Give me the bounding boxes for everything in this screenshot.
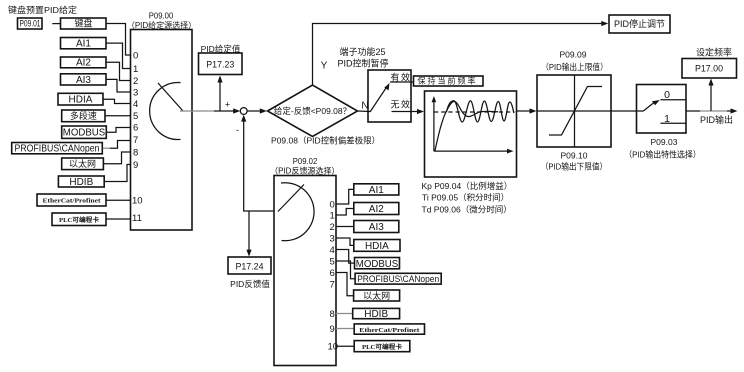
svg-text:P09.09: P09.09 — [560, 50, 587, 60]
input box MODBUS — [62, 126, 107, 138]
input box EtherCat/Profinet — [37, 194, 106, 206]
svg-text:2: 2 — [330, 222, 335, 233]
svg-text:（PID给定源选择）: （PID给定源选择） — [127, 20, 196, 30]
limiter block — [537, 75, 611, 147]
wire AI2 to input 2 — [106, 62, 131, 80]
wire branch down to P17.24 — [248, 211, 250, 253]
svg-text:Ti P09.05（积分时间）: Ti P09.05（积分时间） — [422, 193, 509, 203]
wire PROFIBUS to input 7 — [103, 147, 110, 149]
svg-text:保持当前频率: 保持当前频率 — [418, 76, 478, 86]
wire 有效 contact to 保持当前频率 — [390, 81, 414, 83]
input box AI1 — [61, 38, 107, 49]
svg-text:+: + — [225, 100, 230, 110]
selector U2 P09.02 box — [274, 176, 336, 366]
input box AI2 — [61, 57, 107, 68]
svg-text:3: 3 — [133, 88, 138, 99]
wire diamond to pause switch — [358, 110, 371, 113]
svg-text:PID停止调节: PID停止调节 — [614, 18, 665, 29]
svg-text:HDIB: HDIB — [69, 177, 93, 188]
svg-text:5: 5 — [133, 111, 138, 122]
svg-text:7: 7 — [133, 135, 138, 146]
wire limiter to output selector — [611, 110, 637, 112]
output selector box — [637, 85, 687, 134]
svg-text:PROFIBUS\CANopen: PROFIBUS\CANopen — [15, 143, 100, 154]
feedback box AI3 — [354, 221, 399, 233]
PID regulator block — [425, 91, 517, 177]
PID graph x-axis — [434, 150, 510, 152]
wire branch up to P17.00 — [710, 83, 712, 111]
svg-text:9: 9 — [133, 160, 138, 171]
svg-text:7: 7 — [330, 280, 335, 291]
feedback box AI2 — [354, 203, 399, 215]
parameter box P17.23 — [199, 53, 243, 75]
limiter saturation curve — [549, 87, 602, 136]
feedback wire from selector U2 to summing junction — [244, 119, 274, 212]
pause switch box — [368, 70, 411, 122]
contact line 1 — [661, 122, 687, 124]
svg-text:0: 0 — [133, 51, 138, 62]
wire input 2 to AI3 — [336, 226, 354, 228]
svg-text:键盘: 键盘 — [74, 18, 92, 29]
svg-text:P09.10: P09.10 — [561, 151, 588, 161]
svg-text:1: 1 — [330, 211, 335, 222]
svg-text:多段速: 多段速 — [70, 110, 97, 121]
svg-text:MODBUS: MODBUS — [63, 128, 106, 139]
input box PROFIBUS\CANopen — [12, 143, 103, 154]
svg-text:3: 3 — [330, 234, 335, 245]
svg-text:（PID输出特性选择）: （PID输出特性选择） — [624, 149, 701, 159]
input box HDIB — [58, 176, 104, 187]
svg-text:PID反馈值: PID反馈值 — [230, 279, 270, 289]
limiter vertical axis — [574, 75, 576, 147]
svg-text:P17.00: P17.00 — [695, 64, 723, 75]
svg-text:以太网: 以太网 — [69, 158, 96, 169]
output selector wiper — [637, 103, 654, 111]
svg-text:1: 1 — [133, 64, 138, 75]
svg-text:P09.00: P09.00 — [149, 12, 174, 21]
wire AI3 to input 3 — [106, 79, 131, 92]
wire input 8 to HDIB — [336, 313, 353, 315]
wire junction to diamond — [247, 110, 262, 112]
svg-text:PLC可编程卡: PLC可编程卡 — [59, 216, 99, 224]
svg-text:4: 4 — [133, 99, 138, 110]
svg-text:无效: 无效 — [391, 99, 412, 110]
svg-text:11: 11 — [132, 213, 142, 224]
svg-text:有效: 有效 — [391, 72, 412, 83]
wire HDIA to input 4 — [103, 99, 131, 103]
input box HDIA — [58, 93, 103, 105]
svg-text:端子功能25: 端子功能25 — [339, 46, 385, 57]
wire 无效 contact to PID block — [392, 111, 420, 113]
parameter box P09.01 — [18, 18, 43, 29]
wire 多段速 to input 5 — [105, 115, 131, 117]
wire selector to PID output — [686, 110, 700, 112]
wire PLC to input 11 — [106, 218, 131, 220]
feedback box EtherCat/Profinet — [354, 324, 424, 334]
wire input 1 to AI2 — [336, 209, 354, 216]
svg-text:Td P09.06（微分时间）: Td P09.06（微分时间） — [422, 204, 512, 214]
PID graph setpoint dashed line — [434, 111, 515, 113]
selector U2 switch wiper — [278, 185, 304, 212]
wire MODBUS to input 6 — [106, 128, 130, 133]
svg-text:（PID反馈源选择）: （PID反馈源选择） — [270, 166, 339, 176]
svg-text:-: - — [236, 125, 239, 135]
wire input 9 to EtherCat — [336, 328, 354, 330]
input box 多段速 — [62, 110, 105, 122]
svg-text:HDIA: HDIA — [365, 241, 389, 252]
svg-text:AI1: AI1 — [369, 185, 384, 196]
wire EtherCat to input 10 — [106, 199, 131, 201]
svg-text:P09.01: P09.01 — [20, 19, 41, 30]
input box 以太网 — [62, 158, 104, 170]
pause switch wiper — [370, 87, 387, 113]
wire input 3 to HDIA — [336, 238, 354, 245]
svg-text:Kp P09.04（比例增益）: Kp P09.04（比例增益） — [422, 181, 513, 191]
svg-text:AI3: AI3 — [76, 75, 91, 86]
wire P09.01 to 键盘 — [52, 23, 60, 25]
feedback box 以太网 — [354, 290, 400, 301]
wire AI1 to input 1 — [106, 43, 131, 68]
wire 键盘 to input 0 — [106, 24, 131, 56]
svg-text:4: 4 — [330, 245, 335, 256]
limiter horizontal line through — [537, 110, 611, 112]
decision diamond 给定-反馈 — [268, 85, 358, 137]
svg-text:P09.03: P09.03 — [651, 137, 678, 147]
input box AI3 — [61, 74, 107, 85]
contact line 0 — [661, 99, 687, 101]
selector U1 switch arc — [150, 82, 181, 139]
wire to summing junction — [214, 110, 236, 112]
feedback box HDIA — [354, 240, 400, 252]
box PID停止调节 — [609, 15, 670, 33]
wire input 10 to PLC — [336, 345, 354, 347]
wire input 5 to PROFIBUS — [336, 261, 355, 279]
selector U1 P09.00 box — [131, 30, 193, 231]
svg-text:P17.23: P17.23 — [206, 60, 234, 71]
feedback box PLC可编程卡 — [354, 341, 410, 352]
wire HDIB to input 9 — [104, 165, 130, 182]
svg-text:10: 10 — [328, 342, 339, 353]
box 保持当前频率 — [414, 76, 484, 86]
wire PID block to limiter — [517, 110, 533, 112]
parameter box P17.00 — [682, 59, 737, 79]
feedback box PROFIBUS\CANopen — [355, 273, 441, 284]
svg-text:9: 9 — [330, 324, 335, 335]
svg-text:AI3: AI3 — [369, 222, 384, 233]
summing junction — [240, 108, 247, 115]
svg-text:EtherCat/Profinet: EtherCat/Profinet — [43, 199, 101, 205]
feedback box MODBUS — [355, 258, 400, 269]
svg-text:给定-反馈<P09.08？: 给定-反馈<P09.08？ — [274, 106, 351, 116]
svg-text:P17.24: P17.24 — [236, 262, 264, 273]
svg-text:2: 2 — [133, 76, 138, 87]
svg-text:（PID输出下限值）: （PID输出下限值） — [541, 161, 608, 171]
svg-text:以太网: 以太网 — [363, 290, 390, 301]
svg-text:P09.08（PID控制偏差极限）: P09.08（PID控制偏差极限） — [271, 136, 380, 146]
svg-text:PID输出: PID输出 — [700, 114, 733, 125]
PID graph oscillation — [447, 101, 514, 122]
svg-text:HDIB: HDIB — [364, 309, 388, 320]
svg-text:AI2: AI2 — [76, 58, 91, 69]
feedback box HDIB — [353, 308, 400, 318]
wire Y branch to PID停止调节 — [313, 24, 605, 86]
PID graph y-axis — [433, 100, 435, 152]
svg-text:PLC可编程卡: PLC可编程卡 — [362, 343, 402, 351]
svg-text:AI2: AI2 — [369, 204, 384, 215]
input box 键盘 — [61, 18, 107, 29]
svg-text:（PID输出上限值）: （PID输出上限值） — [541, 62, 608, 72]
svg-text:6: 6 — [133, 123, 138, 134]
svg-text:5: 5 — [330, 257, 335, 268]
svg-text:Y: Y — [321, 61, 328, 72]
input box PLC可编程卡 — [52, 213, 106, 226]
wire branch up to P17.23 — [219, 80, 221, 111]
svg-text:8: 8 — [330, 309, 335, 320]
svg-text:P09.02: P09.02 — [293, 157, 318, 166]
parameter box P17.24 — [228, 257, 271, 274]
svg-text:8: 8 — [133, 148, 138, 159]
wire input 4 to MODBUS — [336, 250, 355, 264]
svg-text:设定频率: 设定频率 — [696, 47, 732, 58]
wire input 6 to 以太网 — [336, 273, 354, 296]
svg-text:键盘预置PID给定: 键盘预置PID给定 — [8, 5, 78, 15]
selector U2 switch arc — [281, 183, 314, 241]
svg-text:PID控制暂停: PID控制暂停 — [337, 58, 388, 69]
wire 以太网 to input 8 — [103, 152, 130, 164]
svg-text:6: 6 — [330, 268, 335, 279]
selector U1 switch wiper — [158, 83, 183, 111]
PID graph response curve — [435, 102, 498, 151]
feedback box AI1 — [354, 184, 399, 195]
svg-text:PROFIBUS\CANopen: PROFIBUS\CANopen — [357, 274, 439, 284]
svg-text:AI1: AI1 — [76, 39, 91, 50]
svg-text:EtherCat/Profinet: EtherCat/Profinet — [359, 328, 419, 334]
svg-text:MODBUS: MODBUS — [356, 259, 399, 270]
svg-text:10: 10 — [132, 196, 143, 207]
wire selector U1 output (gray lead) — [180, 110, 214, 112]
svg-text:HDIA: HDIA — [69, 95, 93, 106]
wire input 0 to AI1 — [336, 189, 354, 204]
svg-text:0: 0 — [330, 200, 335, 211]
